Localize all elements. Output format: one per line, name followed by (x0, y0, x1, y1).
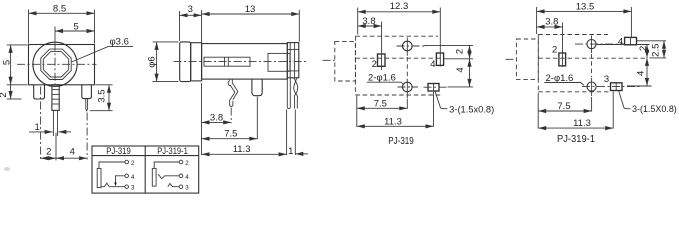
dim 3.8 fp (358, 16, 382, 70)
L contact circle 2 (125, 160, 135, 167)
caption PJ-319 (388, 136, 414, 147)
dashed link between circles (406, 57, 408, 78)
left pin tab (34, 85, 45, 99)
table outer box (92, 146, 199, 193)
svg-text:7.5: 7.5 (224, 129, 237, 140)
dim 11.3 fp (357, 92, 434, 127)
svg-text:PJ-319-1: PJ-319-1 (157, 146, 188, 156)
smudge artifact left (4, 167, 10, 171)
pad 2 v4 (559, 53, 566, 66)
dim 13 top (202, 4, 300, 42)
svg-text:4: 4 (455, 67, 466, 72)
label 3 v4 (604, 74, 609, 85)
svg-text:5: 5 (2, 60, 13, 65)
svg-text:11.3: 11.3 (233, 144, 251, 155)
middle segmented pin (52, 85, 59, 111)
svg-text:11.3: 11.3 (384, 116, 402, 127)
caption PJ-319-1 (557, 134, 595, 145)
svg-text:3: 3 (188, 4, 193, 15)
end cap (287, 43, 299, 78)
centerline vertical through circle (54, 43, 56, 86)
svg-text:2: 2 (185, 160, 189, 167)
svg-text:3.8: 3.8 (362, 16, 375, 27)
svg-text:13: 13 (245, 4, 256, 15)
extension pin2 center (256, 97, 258, 140)
svg-text:1: 1 (35, 122, 40, 133)
R contact circle 2 (179, 160, 189, 167)
table header line (92, 155, 199, 157)
svg-text:PJ-319: PJ-319 (388, 136, 414, 147)
dim 3.8 side (202, 112, 232, 123)
leader 3-(1.5X0.8) v4 (619, 90, 677, 114)
right pin tab (82, 85, 92, 99)
svg-text:2: 2 (372, 59, 377, 70)
outline dashed bottom (355, 94, 441, 96)
svg-text:2: 2 (131, 160, 135, 167)
outline dashed left v4 (537, 35, 539, 92)
R wire with bump to 3 (168, 184, 179, 187)
left pin centerline extension down (40, 87, 42, 160)
solid middle pin (252, 79, 262, 96)
svg-text:3-(1.5X0.8): 3-(1.5X0.8) (632, 104, 677, 114)
dim 7.5 fp (357, 98, 408, 109)
hole bottom circle v4 (582, 78, 640, 96)
svg-text:1: 1 (288, 146, 293, 157)
svg-text:7.5: 7.5 (374, 98, 387, 109)
pad 3 slot (424, 84, 448, 92)
extension pin1 center (230, 108, 232, 124)
extension line body left down (201, 83, 203, 155)
dim 7.5 v4 (538, 93, 591, 129)
dim 5 left (2, 45, 28, 85)
dim 12.3 (358, 1, 441, 67)
L contact circle 3 (125, 185, 135, 192)
inner ring outer octagon (41, 49, 71, 79)
outer circle (bushing) (33, 42, 77, 86)
R wire to tip 2 (154, 162, 179, 168)
hole top circle (397, 37, 428, 55)
dim phi6 left (146, 42, 178, 82)
label 2 v4 (552, 44, 557, 55)
internal right rect (268, 53, 290, 71)
svg-text:4: 4 (185, 174, 189, 181)
pads row dashed centerline (355, 57, 444, 59)
svg-text:3: 3 (185, 185, 189, 192)
label 2 (372, 59, 377, 70)
svg-text:2: 2 (454, 49, 465, 54)
header PJ-319-1 (157, 146, 188, 156)
svg-text:4: 4 (618, 36, 623, 47)
svg-text:2: 2 (552, 44, 557, 55)
outline dashed left (354, 36, 356, 95)
right dim 4 v4 (627, 58, 652, 86)
axis centerline left stub v4 (506, 58, 517, 60)
R wire with v switch to 4 (158, 174, 179, 178)
side view centerline (174, 61, 309, 63)
dims 2 and 4 bottom (41, 133, 88, 161)
svg-text:4: 4 (70, 147, 75, 158)
dim 1 right pins (288, 146, 308, 157)
dim 2 left (0, 85, 22, 99)
outline dashed top v4 (538, 34, 608, 36)
protrusion dashed box (335, 41, 356, 81)
label 4 (430, 59, 435, 70)
axis centerline left stub (323, 59, 335, 61)
dim 5 top (55, 21, 95, 32)
hole bottom circle (398, 79, 419, 99)
svg-text:2: 2 (46, 147, 51, 158)
svg-text:3-(1.5x0.8): 3-(1.5x0.8) (449, 105, 494, 115)
right dim 2 fp (424, 45, 473, 58)
L wire from 4 with arrow (114, 176, 125, 187)
barrel bushing (180, 42, 191, 82)
svg-text:3.8: 3.8 (545, 16, 558, 27)
right dim 2 v4 (597, 45, 650, 58)
header PJ-319 (106, 146, 131, 156)
svg-text:11.3: 11.3 (573, 118, 591, 129)
dim 1 (middle pin wire) (29, 122, 71, 133)
svg-text:2: 2 (638, 46, 649, 51)
pads row dashed centerline v4 (538, 57, 647, 59)
extension right pins (287, 110, 296, 156)
svg-text:8.5: 8.5 (53, 4, 66, 15)
dim 11.3 v4 (538, 92, 613, 129)
dim 3 top (180, 4, 202, 43)
centerline horizontal through circle (17, 63, 97, 65)
leader 3-(1.5x0.8) (435, 91, 494, 115)
svg-text:4: 4 (131, 174, 135, 181)
hole top circle v4 (575, 36, 624, 54)
R sleeve contact (152, 168, 156, 186)
right pin needle (86, 99, 88, 111)
dim 8.5 top (29, 4, 95, 44)
L sleeve contact (97, 168, 101, 187)
dim 13.5 (537, 1, 632, 37)
L wire from sleeve to 3 with switch bump (101, 183, 125, 187)
svg-text:13.5: 13.5 (576, 1, 595, 12)
dim 11.3 side (202, 144, 287, 155)
svg-text:3.5: 3.5 (97, 89, 108, 102)
main body side view (202, 44, 288, 80)
middle pin wires (53, 110, 57, 136)
inner ring inner octagon (hole phi3.6) (43, 52, 68, 77)
label phi3.6 with leader (72, 37, 134, 62)
dim 3.5 right (90, 85, 113, 111)
outline dashed top (355, 35, 438, 37)
right pin extension down (86, 113, 88, 160)
pad 4 v4 (625, 37, 637, 44)
body outline front view (29, 45, 95, 85)
pad 3 v4 (611, 83, 623, 91)
svg-text:12.3: 12.3 (390, 1, 409, 12)
right pin curly (294, 78, 298, 109)
svg-text:PJ-319-1: PJ-319-1 (557, 134, 595, 145)
flange (191, 43, 202, 81)
svg-text:3.8: 3.8 (210, 112, 223, 123)
svg-text:2.5: 2.5 (651, 44, 662, 57)
svg-text:φ3.6: φ3.6 (110, 37, 129, 48)
protrusion dashed box v4 (516, 39, 538, 80)
svg-text:PJ-319: PJ-319 (106, 146, 131, 156)
svg-text:φ6: φ6 (146, 56, 157, 67)
label 4 v4 (618, 36, 623, 47)
right dim 4 fp (448, 59, 474, 87)
svg-text:3: 3 (131, 185, 135, 192)
label 2-phi1.6 (367, 73, 404, 85)
right pin straight (287, 78, 290, 109)
R contact circle 4 (179, 174, 189, 181)
internal slot (204, 57, 250, 66)
extension line center top (54, 27, 56, 43)
dashed link between circles v4 (591, 54, 593, 77)
L contact circle 4 (125, 174, 135, 181)
svg-text:5: 5 (73, 21, 78, 32)
dim 3.8 v4 (537, 16, 563, 67)
right dim 2.5 v4 (637, 41, 667, 58)
svg-text:4: 4 (636, 71, 647, 76)
table divider (144, 146, 146, 193)
svg-text:2: 2 (0, 92, 9, 97)
svg-text:7.5: 7.5 (557, 101, 570, 112)
spring pin 1 (curly) (228, 79, 238, 106)
R contact circle 3 (179, 185, 189, 192)
pad 4 (436, 53, 443, 65)
outline dashed bottom v4 (538, 91, 609, 93)
dim 7.5 side (202, 129, 258, 140)
svg-text:3: 3 (604, 74, 609, 85)
pad 2 (378, 54, 386, 66)
label 2-phi1.6 v4 (544, 73, 584, 86)
L wire to tip 2 (99, 162, 125, 168)
svg-text:4: 4 (430, 59, 435, 70)
